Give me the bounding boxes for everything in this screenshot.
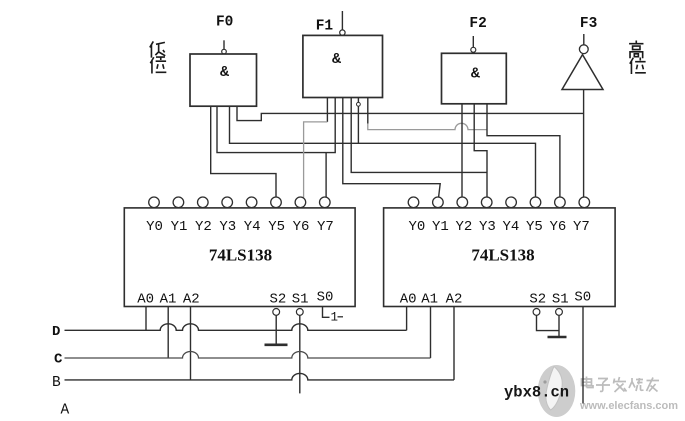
svg-text:www.elecfans.com: www.elecfans.com <box>579 400 678 412</box>
label 高位 <box>629 41 646 74</box>
svg-text:F1: F1 <box>316 18 334 34</box>
svg-text:Y3: Y3 <box>219 219 236 235</box>
decoder U5 74LS138 <box>124 208 355 307</box>
svg-text:B: B <box>52 375 61 391</box>
wire U6.A0 lead to line D <box>406 307 408 331</box>
watermark text 电子发烧友 <box>582 377 660 393</box>
wire U3.2 to U6.Y3 <box>474 104 487 197</box>
svg-text:S2: S2 <box>529 292 546 308</box>
NAND gate U1 <box>190 54 257 106</box>
svg-text:Y1: Y1 <box>432 219 449 235</box>
U6 S1 bubble <box>556 309 563 316</box>
svg-text:A2: A2 <box>446 292 463 308</box>
svg-text:A0: A0 <box>137 292 154 308</box>
ground (U6 S1) <box>548 336 567 339</box>
bus line C (hops at U5.A2 U5.S1) <box>65 352 431 359</box>
svg-text:A: A <box>61 403 70 419</box>
svg-text:Y5: Y5 <box>268 219 285 235</box>
svg-text:D: D <box>52 324 60 340</box>
NAND gate U2 output bubble and lead <box>340 11 345 35</box>
svg-text:&: & <box>471 65 480 82</box>
svg-text:74LS138: 74LS138 <box>471 245 534 264</box>
inverter U4 <box>562 55 603 90</box>
U6 labels S2 S1 S0 <box>529 290 591 308</box>
U5 pin bubbles Y0-Y7 <box>149 197 330 208</box>
wire U6.S0 down <box>582 307 584 404</box>
svg-text:ybx8.cn: ybx8.cn <box>504 384 569 402</box>
U6 S2 bubble <box>533 309 540 316</box>
svg-text:Y4: Y4 <box>502 219 519 235</box>
wire U2.1 to U5.Y6 <box>326 98 328 122</box>
svg-text:Y1: Y1 <box>171 219 188 235</box>
svg-text:A0: A0 <box>400 292 417 308</box>
wire U6.A2 lead to line B <box>453 307 455 380</box>
wire U1.2 / U2.2 to node Y7a <box>217 98 335 153</box>
wire node Y7a to U5.Y7 <box>325 153 327 198</box>
NAND gate U3 output bubble and lead <box>471 36 476 52</box>
wire U5.S0 tie-high stub <box>323 307 330 318</box>
wire U1.3 to U6.Y5 <box>230 106 536 197</box>
watermark logo blob <box>538 365 576 417</box>
svg-text:C: C <box>54 351 63 367</box>
wire U6.S1 to ground <box>558 315 560 336</box>
U5 labels S2 S1 S0 <box>269 290 333 308</box>
U5 S2 bubble <box>273 309 280 316</box>
wire U2.4 to net Y3b <box>351 98 487 173</box>
svg-text:S0: S0 <box>317 290 334 306</box>
wire U1.4 to net F3 <box>237 106 583 121</box>
wire U5.A1 lead to line C <box>167 307 169 359</box>
svg-text:F2: F2 <box>469 16 486 32</box>
wire net F3: U6.Y7 to inverter U4 <box>583 90 585 197</box>
svg-text:Y4: Y4 <box>244 219 261 235</box>
wire U2.5 to net W3 <box>357 98 359 144</box>
NAND gate U2 <box>303 35 383 97</box>
wire U2.6 to net Y3b (gray, hop over U3.1) <box>367 98 369 124</box>
inverter U4 output bubble and lead <box>579 34 588 54</box>
svg-text:S0: S0 <box>574 290 591 306</box>
U6 pin bubbles Y0-Y7 <box>408 197 589 208</box>
svg-text:Y2: Y2 <box>455 219 472 235</box>
wire U3.3 to U6.Y6 <box>487 104 560 197</box>
U5 labels A0 A1 A2 <box>137 292 199 308</box>
svg-text:A1: A1 <box>421 292 438 308</box>
NAND gate U1 output bubble and lead <box>222 40 227 54</box>
U6 labels Y0-Y7 <box>408 219 589 235</box>
svg-text:S1: S1 <box>292 292 309 308</box>
ground (U5 S2) <box>265 343 288 346</box>
U5 labels Y0-Y7 <box>146 219 334 235</box>
svg-text:Y6: Y6 <box>293 219 310 235</box>
svg-text:Y3: Y3 <box>479 219 496 235</box>
bus line D (hops at U5.A1 U5.A2 U5.S1) <box>65 324 407 331</box>
wire U2.3 to U6.Y1 <box>343 98 440 197</box>
svg-text:Y7: Y7 <box>573 219 590 235</box>
svg-text:&: & <box>332 51 341 68</box>
svg-text:Y6: Y6 <box>549 219 566 235</box>
wire U5.S2 to ground <box>275 315 277 344</box>
svg-text:A2: A2 <box>183 292 200 308</box>
label 低位 <box>150 41 167 73</box>
svg-text:A1: A1 <box>160 292 177 308</box>
svg-text:Y0: Y0 <box>408 219 425 235</box>
svg-text:Y0: Y0 <box>146 219 163 235</box>
input bubble U2.5 <box>357 102 361 106</box>
svg-text:Y2: Y2 <box>195 219 212 235</box>
NAND gate U3 <box>442 53 507 104</box>
wire U1.1 to U5.Y5 <box>211 106 276 197</box>
decoder U6 74LS138 <box>384 208 615 307</box>
wire U3.1 to U6.Y2 <box>461 104 463 197</box>
wire U6.S2 to S1 join <box>537 315 560 330</box>
wire U5.S1 to net A <box>299 315 301 393</box>
svg-text:&: & <box>220 64 229 81</box>
bus line B (hop at U5.S1) <box>65 373 455 379</box>
U6 labels A0 A1 A2 <box>400 292 463 308</box>
wire U5.A0 lead to line D <box>145 307 147 331</box>
wire U6.A1 lead to line C <box>430 307 432 359</box>
svg-text:Y5: Y5 <box>526 219 543 235</box>
wire U5.A2 lead to line B <box>190 307 192 380</box>
svg-text:S2: S2 <box>269 292 286 308</box>
svg-text:F3: F3 <box>580 16 597 32</box>
U5 S1 bubble <box>296 309 303 316</box>
svg-text:S1: S1 <box>552 292 569 308</box>
svg-text:74LS138: 74LS138 <box>209 245 272 264</box>
svg-text:1: 1 <box>331 311 339 325</box>
svg-text:F0: F0 <box>216 14 233 30</box>
svg-text:Y7: Y7 <box>317 219 334 235</box>
